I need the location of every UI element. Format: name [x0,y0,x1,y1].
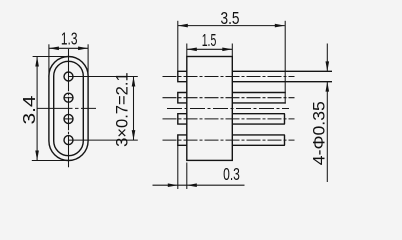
dim dia 0.35 arrows (outside) [326,61,330,71]
dim dia 0.35 dimension line upper [326,44,328,72]
pin 4 left stub [178,135,187,145]
pin 3 left stub [178,114,187,124]
center mark hole 3 [64,118,73,120]
dim 3.5 dimension line [178,25,285,27]
svg-text:3×0.7=2.1: 3×0.7=2.1 [114,72,132,147]
pin 3 centerline [163,118,295,120]
pin 2 left stub [178,93,187,103]
pin 1 left stub [178,71,187,81]
pin 1 right lead edges (extended as ext lines for dia dim) [232,70,332,72]
extension line from hole 1 center [69,76,138,78]
pin hole 2 [64,93,73,102]
horizontal centerline (front view) [37,107,96,109]
pin 4 right lead [232,135,285,145]
dim 1.5 dimension line [187,48,233,50]
svg-text:4-Φ0.35: 4-Φ0.35 [310,101,329,165]
pin 2 right lead [232,93,285,103]
pin 1 centerline [163,76,295,78]
pin 3 right lead [232,114,285,124]
horizontal centerline (side view) [167,108,289,110]
svg-text:1.3: 1.3 [61,29,78,49]
dim 1.3 extension lines [48,44,50,77]
dim 3.4 extension lines [33,56,69,58]
svg-text:3.4: 3.4 [19,95,39,124]
vertical centerline (front view) [68,49,70,167]
pin 2 centerline [163,97,295,99]
extension line from hole 4 center [69,139,138,141]
dim dia 0.35 dimension line lower [326,82,328,182]
dim 3x0.7 dimension line [133,77,135,141]
dim 0.3 arrows (outside) [168,183,178,187]
center mark hole 2 [64,97,73,99]
dim 3x0.7 arrows [132,77,136,87]
dim 1.3 dimension line [49,47,88,49]
connector body outline (side view) [187,57,233,161]
dim 1.5 arrows [187,48,197,52]
svg-text:3.5: 3.5 [221,8,240,28]
connector body inner outline (front view) [54,61,84,155]
dim 3.5 arrows [178,24,188,28]
pin hole 1 [64,72,73,81]
dim 1.5 extension lines [186,44,188,57]
pin 4 centerline [163,139,295,141]
svg-text:1.5: 1.5 [202,30,217,50]
dim 3.5 extension lines [177,21,179,72]
svg-text:0.3: 0.3 [223,164,240,184]
dim 0.3 dimension line [153,184,245,186]
dim 3.4 dimension line [36,57,38,161]
pin hole 4 [64,136,73,145]
connector body outer outline (front view) [49,57,88,161]
dim 0.3 extension lines [177,145,179,189]
pin hole 3 [64,114,73,123]
dim 3.4 arrows [35,57,39,67]
dim 1.3 arrows [49,47,59,51]
